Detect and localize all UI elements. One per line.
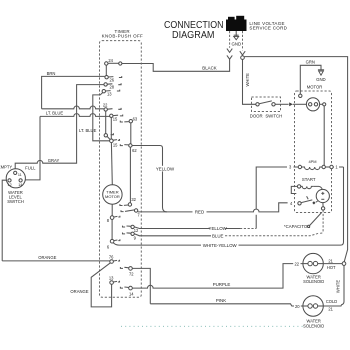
svg-text:12: 12 <box>8 183 12 187</box>
timer contact 8 pivot <box>110 216 114 220</box>
motor inner terminal a <box>309 103 312 106</box>
timer contact 12 blade <box>127 225 132 227</box>
start switch blade <box>301 200 312 203</box>
svg-text:72: 72 <box>129 272 134 277</box>
wire black: chevron to timer 24 <box>122 59 230 71</box>
timer contact 12 tick <box>123 226 126 227</box>
svg-text:76: 76 <box>109 254 114 259</box>
timer contact 14 blade <box>124 286 128 289</box>
timer contact 12 pivot <box>131 225 134 228</box>
main winding coil 4PM <box>302 167 322 170</box>
timer contact 62 pivot <box>129 144 132 147</box>
wire yellow dashed tail <box>240 228 256 230</box>
svg-text:SWITCH: SWITCH <box>7 199 24 204</box>
wire timer motor to contact 8 <box>111 204 113 216</box>
timer contact 22 blade <box>107 108 112 111</box>
timer contact 32 tick <box>120 204 123 205</box>
label RED <box>193 209 207 215</box>
title CONNECTION DIAGRAM <box>164 20 224 41</box>
svg-text:22: 22 <box>295 261 300 266</box>
svg-text:YELLOW: YELLOW <box>209 226 228 231</box>
svg-text:WHITE: WHITE <box>245 73 250 87</box>
svg-text:13: 13 <box>109 275 114 280</box>
svg-text:ORANGE: ORANGE <box>38 255 56 260</box>
motor body circle <box>306 98 319 111</box>
timer motor M1 <box>103 185 122 204</box>
wire 62 to red junction via yellow riser <box>132 146 167 212</box>
start winding coil <box>301 186 313 188</box>
svg-text:14: 14 <box>129 291 134 296</box>
ground lead with arrow <box>234 31 239 40</box>
wire motor circle to right terminal <box>320 103 323 105</box>
wire door switch to motor <box>275 103 288 105</box>
wire orange: to timer 76 <box>2 260 110 262</box>
svg-text:21: 21 <box>328 258 333 263</box>
timer contact 22 pivot <box>104 108 107 111</box>
label YELLOW (line) <box>209 226 228 232</box>
svg-text:BLUE: BLUE <box>212 234 224 239</box>
wire yellow: timer 12 to motor-3 riser <box>134 227 240 229</box>
timer contact 14 tick <box>120 287 123 288</box>
timer contact 76 tick <box>113 260 119 261</box>
timer contact 15b pivot <box>110 139 114 143</box>
water level terminal 14 <box>19 179 22 182</box>
svg-text:YELLOW: YELLOW <box>156 166 175 171</box>
timer contact 72 blade <box>124 266 128 269</box>
svg-text:63: 63 <box>133 116 138 121</box>
svg-text:SERVICE CORD: SERVICE CORD <box>249 26 287 31</box>
start switch terminal 4 <box>298 202 301 205</box>
main winding left terminal <box>298 165 301 168</box>
svg-text:26: 26 <box>110 78 115 83</box>
connector chevron L1 upper <box>227 49 232 53</box>
svg-text:15: 15 <box>113 143 118 148</box>
timer contact 28 blade <box>107 83 112 85</box>
svg-text:EMPTY: EMPTY <box>0 165 12 170</box>
svg-text:SOLENOID: SOLENOID <box>303 279 324 284</box>
label WATER SOLENOID (hot) <box>303 274 324 284</box>
svg-text:14: 14 <box>18 183 22 187</box>
wire blue: timer 9 to capacitor (dashed tail) <box>134 234 211 236</box>
timer contact 9 pivot <box>131 232 134 235</box>
svg-text:FULL: FULL <box>25 166 36 171</box>
motor right terminal <box>323 103 326 106</box>
service cord plug P1 <box>226 16 247 31</box>
svg-text:*CAPACITOR: *CAPACITOR <box>284 224 310 229</box>
timer contact 13 pivot <box>110 281 114 285</box>
wire diamond to capacitor <box>316 201 318 202</box>
wire 62 to 32 <box>129 147 131 203</box>
water level terminal 11 <box>14 171 17 174</box>
label LINE VOLTAGE SERVICE CORD <box>249 21 287 31</box>
svg-text:MOTOR: MOTOR <box>105 194 120 199</box>
wire empty-side: water level 12 left and down to orange <box>2 180 8 261</box>
terminal 1 on box edge <box>330 165 333 168</box>
wire arrow to motor circle <box>293 103 307 105</box>
door switch blade <box>259 101 272 104</box>
start switch tick mark <box>307 196 309 199</box>
start winding stub bracket <box>291 186 297 193</box>
capacitor polarity marks <box>321 192 324 199</box>
svg-text:BLACK: BLACK <box>202 66 216 71</box>
svg-text:PURPLE: PURPLE <box>213 282 231 287</box>
wire lt-blue 1: corner to timer 22 with hops at 76.6 and 92.8 <box>42 106 104 109</box>
wire white riser: node down to cold solenoid <box>323 265 344 306</box>
svg-text:SOLENOID: SOLENOID <box>303 323 324 328</box>
svg-text:KNOB-PUSH OFF: KNOB-PUSH OFF <box>102 34 144 39</box>
timer contact 14 pivot <box>129 286 133 290</box>
svg-text:32: 32 <box>131 197 136 202</box>
timer contact 76 pivot <box>110 260 114 264</box>
timer contact 13 tick <box>113 281 119 282</box>
timer contact 13a pivot <box>102 90 105 93</box>
start winding left terminal <box>297 185 300 188</box>
timer contact 63 pivot <box>129 120 132 123</box>
water level switch S2 body <box>6 169 25 188</box>
node white/hot junction <box>342 262 346 266</box>
svg-text:GRN: GRN <box>306 60 315 65</box>
wire white: node down to door switch <box>243 59 256 104</box>
svg-text:22: 22 <box>103 102 108 107</box>
label *CAPACITOR with pointer <box>284 213 322 230</box>
wire gray: water level 11 to timer 28, hop at x=40 <box>15 85 104 172</box>
wire grn to chassis gnd <box>300 65 321 94</box>
wire red: timer 7 to motor 4 with hop at x=256.2 <box>138 203 288 212</box>
svg-text:GND: GND <box>316 77 326 82</box>
start switch diamond terminal <box>312 201 315 204</box>
svg-text:DOOR SWITCH: DOOR SWITCH <box>250 113 283 118</box>
timer contact 28 tick <box>118 83 121 84</box>
label WATER SOLENOID (cold) <box>303 319 324 329</box>
wire 15b to timer motor <box>110 143 113 185</box>
timer contact m tick <box>111 133 114 134</box>
wire cord L1 dashed drop <box>229 31 231 48</box>
timer contact 32 blade <box>124 204 128 206</box>
svg-text:GND: GND <box>232 42 242 47</box>
svg-text:WHITE-YELLOW: WHITE-YELLOW <box>203 243 238 248</box>
timer contact 72 tick <box>120 267 123 268</box>
wire 63 to 62 <box>130 123 132 144</box>
svg-text:RED: RED <box>195 210 204 215</box>
svg-text:4PM: 4PM <box>309 159 317 164</box>
capacitor bottom terminal <box>321 207 324 210</box>
timer contact 8 tick <box>114 216 120 217</box>
connector chevron L1 lower <box>227 55 232 59</box>
svg-text:ORANGE: ORANGE <box>70 289 88 294</box>
timer contact 6 pivot <box>110 239 114 243</box>
timer contact 15a tick <box>120 115 123 116</box>
wire full-side: water level 14 right then up <box>22 116 40 179</box>
svg-text:15: 15 <box>113 117 118 122</box>
timer contact 26 blade <box>108 76 113 78</box>
svg-text:20: 20 <box>295 304 300 309</box>
svg-text:START: START <box>302 177 316 182</box>
timer contact 32 pivot <box>128 203 131 206</box>
timer contact 72 pivot <box>129 267 133 271</box>
chassis ground symbol <box>318 70 324 75</box>
connector chevron N <box>240 51 245 55</box>
wire capacitor dashed drop to blue <box>319 210 324 233</box>
timer contact 7 blade <box>125 210 135 212</box>
door switch box <box>252 97 281 112</box>
wire 72 to pink <box>132 268 150 303</box>
wire white-yellow: timer 6 to motor 1 <box>113 167 343 245</box>
hot water solenoid L1 body <box>303 253 323 273</box>
wire 15a down to 15b <box>110 118 112 140</box>
wire capacitor body to bottom terminal <box>322 203 324 207</box>
water level terminal 12 <box>8 179 11 182</box>
door switch terminal right <box>272 103 275 106</box>
motor inner terminal b <box>314 103 317 106</box>
timer contact 28 pivot <box>104 83 107 86</box>
svg-text:PINK: PINK <box>216 298 226 303</box>
timer contact 15b tick <box>113 139 119 140</box>
fold line (teal dotted) <box>121 325 303 327</box>
wire 13a to lower contact 15b via x=92.8 <box>93 93 110 141</box>
label WATER LEVEL SWITCH <box>7 190 24 204</box>
timer contact 24 arm and terminal <box>108 62 119 64</box>
timer contact 9 blade <box>127 232 132 234</box>
motor grn terminal <box>299 94 302 97</box>
motor enclosure box (dashed) <box>295 91 332 213</box>
timer contact 6 tick <box>114 239 120 240</box>
wire motor common down to main winding <box>323 106 325 165</box>
wire purple: 14 to hot solenoid with hop at x=150.3 <box>132 264 302 289</box>
timer contact 26 pivot <box>105 76 108 79</box>
main winding right terminal <box>322 165 325 168</box>
node N junction <box>241 56 245 60</box>
label TIMER KNOB-PUSH OFF <box>102 29 144 39</box>
connector arrow into motor <box>289 102 293 106</box>
timer contact m blade to 15b <box>107 136 110 139</box>
timer contact 63 tick <box>120 121 123 122</box>
svg-text:LT. BLUE: LT. BLUE <box>79 128 97 133</box>
hot solenoid coil <box>303 261 323 265</box>
svg-text:62: 62 <box>132 148 137 153</box>
svg-text:28: 28 <box>110 85 115 90</box>
capacitor C1 body <box>316 189 329 202</box>
svg-text:COLD: COLD <box>326 299 337 304</box>
wire brown: timer 26 jumper down-left to LT.BLUE-1 level <box>42 76 105 108</box>
wire white: node to right edge and down to hot node <box>244 57 347 262</box>
svg-text:21: 21 <box>328 306 333 311</box>
timer contact 22 tick <box>118 108 121 109</box>
label BLUE (line) <box>212 233 225 239</box>
cold water solenoid L2 body <box>303 296 323 316</box>
svg-text:WHITE: WHITE <box>335 280 340 293</box>
timer contact 7 pivot <box>134 209 137 212</box>
timer contact 7 tick <box>121 210 124 211</box>
svg-text:BRN: BRN <box>47 71 56 76</box>
wire 22 to contact m <box>105 111 107 134</box>
timer contact 62 tick <box>120 144 123 145</box>
timer contact 63 blade <box>124 121 129 123</box>
svg-text:MOTOR: MOTOR <box>307 84 323 89</box>
svg-text:GRAY: GRAY <box>48 158 60 163</box>
svg-text:HOT: HOT <box>327 265 336 270</box>
label WHITE-YELLOW <box>201 242 239 248</box>
wire cord N dashed drop <box>242 31 244 50</box>
wire hot solenoid to white node <box>323 263 342 265</box>
cold solenoid coil <box>303 304 323 308</box>
wire terminal 1 to white-yellow riser <box>333 166 343 168</box>
timer contact 62 blade <box>124 144 129 146</box>
timer contact 9 tick <box>123 233 126 234</box>
svg-text:11: 11 <box>18 173 22 177</box>
svg-text:DIAGRAM: DIAGRAM <box>172 30 215 41</box>
wire 24 to 26 <box>105 65 107 75</box>
wire 76 loop to 13 (orange jumper) <box>91 263 111 307</box>
wire contact 8 to contact 6 <box>111 219 113 239</box>
timer contact 15a blade <box>113 114 118 116</box>
wire start winding to capacitor top <box>313 186 322 189</box>
timer enclosure box (dashed) <box>100 41 142 298</box>
timer contact 15a pivot <box>110 114 113 117</box>
timer contact m pivot <box>104 134 107 137</box>
timer contact 26 tick <box>119 76 122 77</box>
label YELLOW (riser) <box>151 166 180 172</box>
wire lt-blue 2: from water level 14 riser corner to timer 15a with hops <box>40 114 110 117</box>
door switch terminal left <box>256 103 259 106</box>
svg-text:24: 24 <box>108 58 113 63</box>
wire main winding to terminal 1 <box>325 166 329 168</box>
timer contact 13a tick <box>117 90 120 91</box>
wire 3: motor main to riser <box>256 167 298 229</box>
svg-text:LT. BLUE: LT. BLUE <box>46 110 64 115</box>
svg-text:13: 13 <box>107 91 112 96</box>
timer contact 24 pivot <box>105 62 108 65</box>
timer contact 13a blade <box>106 90 111 92</box>
wire pink: 72 to cold solenoid <box>150 304 302 306</box>
